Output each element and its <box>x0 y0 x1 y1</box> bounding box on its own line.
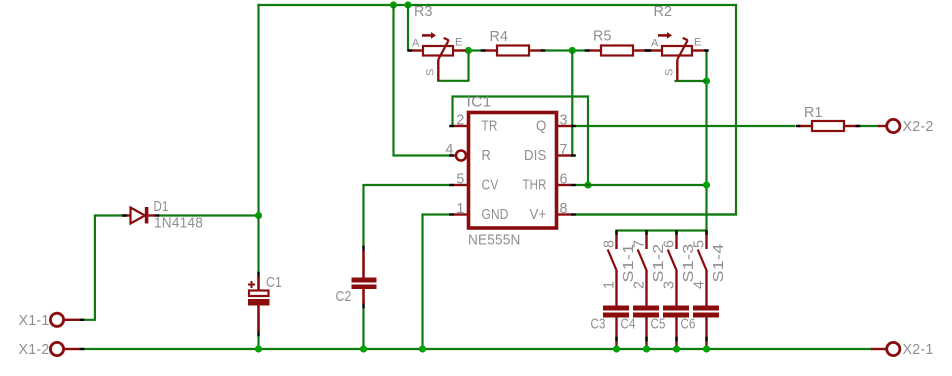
switch S1-4 <box>698 231 707 306</box>
capacitor C2 <box>352 250 377 304</box>
svg-text:6: 6 <box>662 240 678 248</box>
junction GND pin wire/rail <box>419 345 426 352</box>
svg-text:TR: TR <box>482 119 498 135</box>
svg-text:IC1: IC1 <box>467 95 492 111</box>
svg-text:R2: R2 <box>654 4 673 20</box>
wire V+ node down to C1 <box>257 216 259 273</box>
svg-text:S: S <box>664 68 676 76</box>
svg-text:X1-2: X1-2 <box>19 342 50 358</box>
svg-text:D1: D1 <box>154 199 169 215</box>
junction THR/R2/switch node <box>703 181 710 188</box>
svg-text:THR: THR <box>523 178 547 194</box>
IC1 pin 5 (CV) <box>453 184 468 186</box>
svg-text:A: A <box>651 38 659 50</box>
wire R3 E to R4 <box>462 49 485 51</box>
svg-text:1: 1 <box>602 281 618 289</box>
svg-text:2: 2 <box>632 281 648 289</box>
wire V+ top rail <box>259 4 737 6</box>
wire R1 to X2-2 <box>856 125 878 127</box>
wire THR row from pin 6 to R2 node <box>577 184 707 186</box>
svg-text:C4: C4 <box>621 317 636 333</box>
IC1 pin 8 (V+) <box>557 213 572 215</box>
svg-text:S1-4: S1-4 <box>711 244 727 283</box>
IC1 pin 1 (GND) <box>453 213 468 215</box>
wire IC1 TR pin 2 up and over to THR node <box>453 97 589 186</box>
resistor R1 <box>798 121 858 131</box>
connector X1-2 <box>64 348 80 350</box>
svg-text:2: 2 <box>456 113 464 129</box>
capacitor C6 <box>693 306 719 350</box>
junction R4/R5 to DIS node <box>569 47 576 54</box>
capacitor C5 <box>663 306 689 350</box>
wire bottom GND rail <box>83 348 871 350</box>
svg-text:CV: CV <box>482 178 499 194</box>
junction C2/rail <box>360 345 367 352</box>
wire CV pin 5 to C2 <box>364 185 449 246</box>
junction C6/rail <box>703 345 710 352</box>
IC1 pin 6 (THR) <box>557 184 572 186</box>
IC1 pin 2 (TR) <box>453 125 468 127</box>
svg-text:GND: GND <box>482 207 509 223</box>
wire V+ rail to R3 pin A <box>407 5 409 51</box>
connector X1-1 <box>64 319 80 321</box>
svg-text:C6: C6 <box>681 317 696 333</box>
trimmer R2 <box>648 38 707 81</box>
wire C1 to bottom rail <box>257 336 259 349</box>
wire R4 to R5 segment <box>541 49 589 51</box>
svg-text:4: 4 <box>692 281 708 289</box>
wire R5 to R2 pin A <box>645 49 650 51</box>
svg-text:3: 3 <box>560 113 568 129</box>
wire V+ rail left drop to D1/C1 node <box>257 5 259 216</box>
wire R2 E down to THR node and switch rail <box>705 51 707 231</box>
junction R2 S/E node <box>703 77 710 84</box>
svg-text:4: 4 <box>445 142 453 158</box>
junction C5/rail <box>673 345 680 352</box>
svg-text:R1: R1 <box>804 105 823 121</box>
switch S1-2 <box>638 231 647 306</box>
junction C1/rail <box>255 345 262 352</box>
svg-text:5: 5 <box>456 172 464 188</box>
svg-text:R4: R4 <box>490 29 509 45</box>
svg-text:R5: R5 <box>593 29 612 45</box>
svg-text:X2-1: X2-1 <box>903 342 934 358</box>
svg-text:5: 5 <box>692 240 708 248</box>
svg-text:S1-1: S1-1 <box>621 244 637 283</box>
IC NE555 body U=IC1 <box>469 113 557 229</box>
arrow R2 <box>658 32 672 39</box>
junction C4/rail <box>643 345 650 352</box>
svg-text:3: 3 <box>662 281 678 289</box>
plus sign C1 <box>248 281 255 288</box>
wire X1-1 to D1 <box>83 216 122 320</box>
connector X2-2 <box>878 125 886 127</box>
junction on V+ rail at x=393.5 <box>390 1 397 8</box>
svg-text:S1-2: S1-2 <box>651 244 667 283</box>
svg-text:7: 7 <box>632 240 648 248</box>
svg-text:C3: C3 <box>591 317 606 333</box>
junction on V+ rail at x=408 <box>404 1 411 8</box>
junction TR/THR node left <box>584 181 591 188</box>
connector X2-1 <box>871 348 886 350</box>
svg-text:8: 8 <box>560 201 568 217</box>
wire R3 S loop <box>438 51 468 81</box>
diode D1 <box>122 207 155 224</box>
resistor R4 <box>483 46 543 56</box>
junction C3/rail <box>613 345 620 352</box>
svg-text:S: S <box>425 68 437 76</box>
wire D1 to V+ node <box>159 214 259 216</box>
svg-text:X1-1: X1-1 <box>19 313 50 329</box>
svg-text:1: 1 <box>456 201 464 217</box>
capacitor C4 <box>633 306 659 350</box>
resistor R5 <box>587 46 647 56</box>
svg-text:DIS: DIS <box>524 148 547 164</box>
svg-text:Q: Q <box>536 119 547 135</box>
svg-text:NE555N: NE555N <box>468 232 521 249</box>
svg-text:7: 7 <box>560 142 568 158</box>
svg-text:C5: C5 <box>651 317 666 333</box>
svg-text:R: R <box>482 148 492 164</box>
wire Q output row to R1 <box>577 125 795 127</box>
wire GND pin 1 down to bottom rail <box>423 215 449 350</box>
svg-text:R3: R3 <box>414 4 433 20</box>
IC1 pin 4 (R) <box>452 151 466 161</box>
svg-text:C2: C2 <box>336 289 352 305</box>
wire V+ rail right drop to IC1 V+ pin 8 <box>576 5 736 215</box>
capacitor C1 (polarized) <box>248 276 270 332</box>
svg-text:6: 6 <box>560 172 568 188</box>
wire V+ row pin 8 to right drop <box>577 213 737 215</box>
switch S1-3 <box>668 231 677 306</box>
wire V+ rail to IC1 reset pin 4 <box>394 5 452 156</box>
svg-text:8: 8 <box>602 240 618 248</box>
switch S1-1 <box>608 231 617 306</box>
svg-text:1N4148: 1N4148 <box>154 216 203 232</box>
wire C2 to bottom rail <box>362 308 364 349</box>
svg-text:C1: C1 <box>266 275 282 291</box>
arrow R3 <box>422 32 436 39</box>
trimmer R3 <box>409 38 467 81</box>
svg-text:S1-3: S1-3 <box>681 244 697 283</box>
wire R4/R5 node down to IC1 DIS pin 7 <box>571 51 573 156</box>
wire switch top rail <box>617 229 707 231</box>
svg-text:E: E <box>455 37 463 49</box>
IC1 pin 7 (DIS) <box>557 154 572 156</box>
svg-text:E: E <box>694 37 702 49</box>
IC1 pin 3 (Q) <box>557 125 572 127</box>
junction D1/C1/V+ node <box>255 212 262 219</box>
capacitor C3 <box>603 306 629 350</box>
junction R3 S/E node <box>465 47 472 54</box>
svg-text:A: A <box>412 38 420 50</box>
wire R2 S loop <box>676 80 707 82</box>
svg-text:X2-2: X2-2 <box>903 119 934 135</box>
svg-text:V+: V+ <box>530 207 547 223</box>
